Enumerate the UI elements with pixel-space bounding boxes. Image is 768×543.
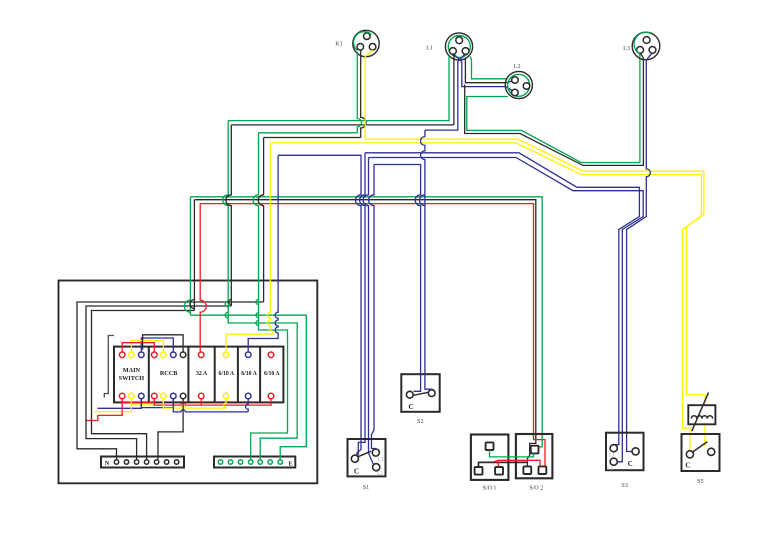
neutral bar terminal 2 (124, 460, 128, 464)
S/O2 earth terminal (531, 446, 539, 454)
S1 terminal C (351, 455, 358, 462)
wire link MS-yellow to RCCB-yellow (bottom) (131, 399, 163, 405)
svg-text:L1: L1 (378, 456, 384, 462)
wire link MS-blue to RCCB-blue (bottom) (141, 399, 173, 408)
earth horizontal run to L1 (green) (228, 120, 450, 122)
neutral bar terminal 1 (114, 460, 118, 464)
earth tail L1 left (green) (448, 56, 450, 121)
live wire 32A to S/O ring (red) (200, 204, 206, 352)
svg-text:RCCB: RCCB (160, 370, 178, 377)
L1 terminal right (462, 48, 469, 55)
breaker bottom terminal at x=173.3 (171, 393, 177, 399)
neutral bar terminal 3 (134, 460, 138, 464)
wire link MS-blue to RCCB-blue (top) (141, 338, 173, 352)
svg-text:MAIN: MAIN (123, 367, 141, 374)
svg-text:L2: L2 (514, 63, 521, 70)
breaker top terminal at x=163.3 (161, 352, 167, 358)
earth long run to S/O (green) (190, 197, 542, 447)
S3 terminal C (632, 448, 639, 455)
S5 lever (693, 442, 708, 452)
svg-text:6/10 A: 6/10 A (264, 371, 280, 377)
blue strapper 2 S1 to S3 (363, 158, 368, 454)
svg-text:S5: S5 (697, 478, 704, 485)
L1 earth loop (green) (448, 36, 470, 58)
L2 earth loop (green) (508, 74, 530, 96)
earth bar terminal 3 (238, 460, 242, 464)
blue busbar horizontal (173, 399, 248, 412)
S2 lever (413, 392, 428, 395)
panel module divider 2 (187, 347, 189, 403)
S3 terminal L2 (610, 458, 617, 465)
L2 terminal top-left (512, 77, 519, 84)
breaker top terminal at x=141.3 (139, 352, 145, 358)
red drop 32A bottom (200, 399, 202, 405)
breaker top terminal at x=122.2 (119, 352, 125, 358)
svg-text:C: C (354, 469, 359, 476)
breaker bottom terminal at x=122.2 (119, 393, 125, 399)
breaker top terminal at x=248.2 (245, 352, 251, 358)
red busbar RCCB to 32A and 6/10A (154, 399, 271, 405)
breaker top terminal at x=271 (268, 352, 274, 358)
relay actuator line (692, 393, 709, 432)
ceiling rose L2 (505, 71, 532, 98)
earth wire lamp L1 (green) (223, 121, 297, 460)
blue tail L3 to S3 (blue) (627, 53, 653, 452)
neutral tail L1 left (black) (453, 54, 455, 125)
S2 blue into right terminal (425, 374, 432, 390)
K1 earth loop (green) (354, 32, 372, 51)
ceiling rose K1 (353, 30, 379, 56)
breaker top terminal at x=183.1 (180, 352, 186, 358)
neutral bar (101, 457, 184, 468)
breaker bottom terminal at x=183.1 (180, 393, 186, 399)
distribution board enclosure (59, 281, 318, 484)
L3 terminal right (649, 47, 656, 54)
socket S/O1 box (471, 435, 509, 480)
wire link MS-yellow to RCCB-yellow (top) (131, 340, 163, 352)
live long run to S/O (red) (200, 204, 545, 467)
breaker top terminal at x=131.3 (129, 352, 135, 358)
earth bar terminal 6 (268, 460, 272, 464)
neutral wire from L3/SO area to N bar (outer) (77, 302, 264, 460)
svg-text:6/10 A: 6/10 A (241, 371, 257, 377)
S/O2 neutral terminal (523, 466, 531, 474)
wire link MS-red to RCCB-red (top) (122, 343, 154, 352)
breaker bottom terminal at x=226 (223, 393, 229, 399)
blue strapper 1 horizontal (365, 153, 639, 445)
breaker bottom terminal at x=248.2 (245, 393, 251, 399)
breaker top terminal at x=173.3 (171, 352, 177, 358)
svg-text:S/O 2: S/O 2 (529, 485, 543, 491)
svg-text:N: N (105, 460, 110, 467)
panel module divider 5 (259, 347, 261, 403)
neutral bar terminal 5 (154, 460, 158, 464)
ceiling rose L3 (632, 32, 660, 60)
wire RCCB neutral top link (black) (143, 335, 184, 352)
breaker bottom terminal at x=163.3 (161, 393, 167, 399)
neutral tail K1 (black) (361, 50, 366, 137)
svg-text:SWITCH: SWITCH (119, 375, 145, 382)
earth link S/O1 to S/O2 (green) (490, 450, 534, 457)
blue S1-S2 horizontal (374, 165, 421, 375)
svg-text:L2: L2 (377, 471, 383, 477)
earth wire lamp K1 (green) (251, 133, 288, 460)
L1 switch-wire X (blue) (453, 54, 466, 62)
socket S/O2 box (516, 434, 553, 478)
switched live tail K1 (yellow) (365, 50, 372, 139)
neutral riser for socket run (black) (190, 200, 194, 311)
svg-text:C: C (685, 462, 690, 469)
svg-text:S3: S3 (621, 482, 628, 489)
blue wire L1-left-terminal to L2 (462, 62, 513, 92)
blue feed horizontal to S1 (278, 155, 361, 456)
switch S3 box (606, 433, 644, 471)
S1 switched wire to L2 terminal (blue) (369, 453, 374, 464)
earth L1 box to L2 (green) (470, 57, 507, 79)
svg-text:L3: L3 (623, 45, 630, 52)
yellow riser from 6/10A breaker (226, 143, 273, 352)
yellow relay to S5 switch (704, 424, 706, 447)
neutral long run to S/O (black) (194, 200, 535, 467)
panel module divider 3 (214, 347, 216, 403)
ceiling rose L1 (445, 33, 472, 60)
neutral via L1 box to L2 (black) (465, 58, 513, 83)
breaker bottom terminal at x=154.3 (152, 393, 158, 399)
S1 terminal L1 (372, 449, 379, 456)
blue S1 to S2 live loop (369, 165, 376, 449)
S/O1 earth terminal (486, 442, 494, 450)
consumer unit / breaker panel outline (114, 347, 283, 403)
K1 terminal left (357, 44, 364, 51)
breaker bottom terminal at x=271 (268, 393, 274, 399)
neutral bar terminal 6 (164, 460, 168, 464)
neutral wire lamp L1 (black) (226, 125, 231, 306)
S/O2 live terminal (539, 466, 547, 474)
S1 lever (358, 451, 371, 457)
svg-text:6/10 A: 6/10 A (218, 371, 234, 377)
K1 terminal top (364, 33, 371, 40)
S1 terminal L2 (373, 464, 380, 471)
relay box (688, 405, 715, 424)
blue strapper 1 S1 to S3 (358, 153, 365, 455)
svg-text:C: C (628, 461, 633, 468)
neutral link bus S/O1-S/O2 (black) (479, 462, 528, 467)
neutral horizontal run to L1 (black) (231, 124, 454, 126)
svg-text:L2: L2 (607, 466, 613, 472)
earth wire E-bar riser to socket run (green) (184, 197, 190, 315)
supply stub red (85, 399, 122, 421)
breaker top terminal at x=226 (223, 352, 229, 358)
S2 terminal left (406, 391, 413, 398)
S5 terminal left (686, 451, 693, 458)
L2 terminal bottom (512, 89, 519, 96)
S/O1 neutral terminal (475, 467, 483, 475)
svg-text:L1: L1 (609, 453, 615, 459)
svg-text:32 A: 32 A (196, 371, 208, 377)
svg-text:S2: S2 (417, 418, 424, 425)
K1 terminal right (369, 44, 376, 51)
neutral bar terminal 7 (174, 460, 178, 464)
svg-text:C: C (409, 404, 414, 411)
neutral wire lamp K1 (black) (258, 138, 263, 303)
L1 terminal top (456, 37, 463, 44)
svg-text:E: E (289, 460, 293, 467)
black diag into L3 (640, 53, 643, 58)
blue wire S2 switched via L1 box (420, 62, 458, 375)
L2 terminal right (523, 83, 530, 90)
S3 terminal L1 (610, 445, 617, 452)
neutral onward to L3 (black) (465, 58, 644, 165)
S/O1 live terminal (495, 467, 503, 475)
earth bar terminal 2 (228, 460, 232, 464)
switch S2 box (401, 374, 439, 412)
L3 terminal top (643, 37, 650, 44)
S2 terminal right (428, 390, 435, 397)
breaker bottom terminal at x=201.2 (198, 393, 204, 399)
supply bracket (grey) (104, 336, 114, 398)
yellow switched run K1 to relay (365, 139, 705, 405)
earth bar terminal 5 (258, 460, 262, 464)
earth tail K1 (green) (357, 52, 361, 133)
switch S1 box (348, 439, 386, 476)
panel module divider 4 (237, 347, 239, 403)
yellow feed run to S5 (270, 143, 701, 451)
L3 terminal left (637, 47, 644, 54)
wire link MS-red to RCCB-red (bottom) (122, 399, 154, 402)
breaker bottom terminal at x=131.3 (129, 393, 135, 399)
wire RCCB neutral to N bar (158, 399, 183, 460)
relay coil (691, 416, 712, 419)
earth bar terminal 4 (249, 460, 253, 464)
yellow busbar horizontal (163, 399, 226, 408)
svg-text:K1: K1 (335, 41, 343, 48)
neutral wire to N bar (inner) (92, 311, 195, 460)
yellow busbar RCCB to 6/10A (224, 399, 226, 408)
svg-text:S1: S1 (363, 484, 370, 491)
S1 wire into L1 terminal (blue) (375, 448, 377, 451)
supply stub blue (98, 399, 142, 408)
breaker bottom terminal at x=141.3 (139, 393, 145, 399)
earth riser drop to E-bar (green) (190, 315, 306, 459)
panel module divider 1 (148, 347, 150, 403)
svg-text:S/O 1: S/O 1 (483, 485, 497, 491)
earth horizontal K1 (green) (259, 132, 358, 134)
blue feed panel riser to S1 (248, 155, 278, 352)
switch S5 box (682, 434, 720, 471)
neutral horizontal K1 (black) (264, 137, 361, 139)
earth bar (214, 457, 295, 468)
L3 earth loop (green) (634, 32, 651, 54)
earth return L2 onward (green) (467, 54, 640, 163)
live link S/O1-S/O2 (red) (495, 460, 540, 467)
svg-text:L1: L1 (426, 45, 433, 52)
blue strapper 2 horizontal (369, 158, 644, 462)
breaker top terminal at x=154.3 (152, 352, 158, 358)
L1 terminal left (450, 48, 457, 55)
blue busbar RCCB to 6/10A (246, 399, 249, 412)
earth bar terminal 1 (218, 460, 222, 464)
neutral bar terminal 4 (144, 460, 148, 464)
earth bar terminal 7 (278, 460, 282, 464)
supply stub yellow (95, 399, 132, 412)
S2 blue into left terminal (414, 374, 421, 391)
breaker top terminal at x=201.2 (198, 352, 204, 358)
S5 terminal right (708, 448, 715, 455)
neutral wire to N bar (middle) (86, 306, 231, 460)
